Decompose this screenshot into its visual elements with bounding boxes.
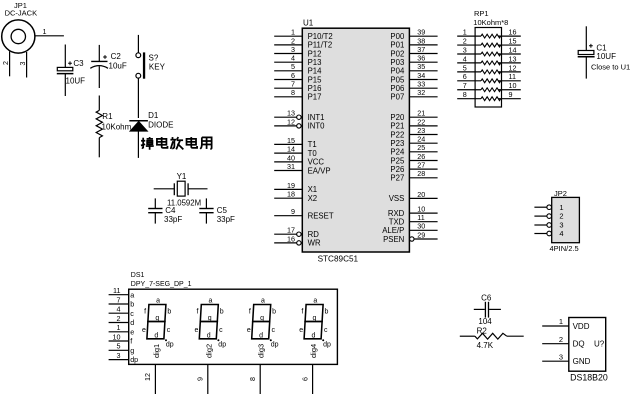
U1 pin 12 (INT0) [274,117,325,130]
svg-text:c: c [219,327,223,334]
svg-text:33pF: 33pF [217,215,235,224]
U1 pin 28 (P27) [390,169,437,182]
DS1 pin 5 (g) [109,342,135,355]
svg-text:e: e [130,327,134,336]
svg-text:C2: C2 [111,52,122,61]
svg-text:dig1: dig1 [152,344,161,358]
svg-text:P04: P04 [390,67,405,76]
svg-text:12: 12 [509,63,517,72]
U1 pin 38 (P01) [390,36,437,49]
DS1 pin 3 (dp) [109,351,139,364]
svg-text:P10/T2: P10/T2 [308,32,333,41]
svg-text:U1: U1 [303,18,314,27]
svg-text:Y1: Y1 [177,172,187,181]
svg-text:12: 12 [287,117,295,126]
svg-text:10Kohm: 10Kohm [102,123,132,132]
svg-text:T1: T1 [308,140,317,149]
svg-text:dig2: dig2 [204,344,213,358]
IC U1 STC89C51 body [302,18,409,263]
svg-text:10: 10 [509,81,517,90]
svg-text:DIODE: DIODE [148,121,173,130]
U1 pin 15 (T1) [274,136,317,149]
svg-text:C3: C3 [73,59,84,68]
svg-text:e: e [247,327,251,334]
svg-text:4: 4 [463,54,467,63]
svg-text:4: 4 [117,305,121,314]
svg-text:KEY: KEY [149,62,166,71]
svg-text:8: 8 [248,377,257,381]
svg-text:20: 20 [417,190,425,199]
svg-text:1: 1 [559,317,563,326]
svg-text:b: b [130,300,134,309]
svg-text:b: b [272,309,276,316]
U1 pin 18 (X2) [274,190,317,203]
svg-text:dp: dp [323,342,331,349]
RP1 resistor 1-16 [457,28,521,39]
svg-text:31: 31 [287,162,295,171]
svg-text:Close to U1: Close to U1 [591,63,630,72]
U1 pin 32 (P07) [390,88,437,101]
svg-text:a: a [261,297,265,304]
svg-text:INT1: INT1 [308,113,325,122]
U1 pin 39 (P00) [390,28,437,41]
svg-text:dp: dp [271,342,279,349]
svg-text:5: 5 [463,63,467,72]
DS1 digit glyph dig2 [194,297,226,358]
svg-text:c: c [167,327,171,334]
svg-text:RESET: RESET [308,212,334,221]
svg-text:2: 2 [463,36,467,45]
DS18B20 pin 1 (VDD) [542,317,590,331]
U1 pin 31 (EA/VP) [274,162,330,175]
svg-text:33pF: 33pF [164,215,182,224]
svg-text:a: a [209,297,213,304]
svg-text:c: c [324,327,328,334]
svg-text:3: 3 [559,352,563,361]
svg-text:15: 15 [509,36,517,45]
svg-text:DQ: DQ [573,340,585,349]
svg-text:a: a [156,297,160,304]
U1 pin 27 (P26) [390,161,437,174]
svg-text:f: f [130,337,132,346]
svg-text:STC89C51: STC89C51 [318,254,359,263]
svg-text:P17: P17 [308,93,322,102]
svg-text:f: f [144,309,146,316]
JP1 pin 2 wire [1,52,10,77]
svg-text:37: 37 [417,45,425,54]
svg-text:39: 39 [417,28,425,37]
U1 pin 24 (P23) [390,135,437,148]
svg-text:30: 30 [417,222,425,231]
capacitor C6 104 [474,293,501,326]
svg-text:19: 19 [287,181,295,190]
U1 pin 14 (T0) [274,145,317,158]
svg-text:5: 5 [291,62,295,71]
U1 pin 10 (RXD) [388,205,438,218]
svg-text:27: 27 [417,161,425,170]
U1 pin 2 (P11/T2) [274,36,332,49]
DS18B20 pin 2 (DQ) [542,335,584,349]
svg-text:C6: C6 [481,293,492,302]
svg-text:16: 16 [287,234,295,243]
svg-text:R1: R1 [102,112,113,121]
DS1 pin 2 (d) [109,314,135,327]
svg-text:WR: WR [308,239,321,248]
svg-text:6: 6 [291,71,295,80]
svg-text:f: f [249,309,251,316]
svg-text:f: f [301,309,303,316]
JP1 pin 1 wire [35,27,64,36]
svg-text:9: 9 [196,377,205,381]
capacitor C4 33pF [148,198,182,223]
svg-text:5: 5 [117,342,121,351]
svg-text:P26: P26 [390,165,404,174]
display DS1 DPY_7-SEG_DP_1 body [129,272,338,365]
svg-text:P20: P20 [390,113,405,122]
svg-text:6: 6 [463,72,467,81]
svg-text:29: 29 [417,230,425,239]
svg-text:4: 4 [559,229,563,238]
RP1 resistor 8-9 [457,90,521,101]
svg-text:g: g [130,346,134,355]
svg-text:ALE/P: ALE/P [382,226,404,235]
svg-text:dig4: dig4 [309,344,318,358]
capacitor C3 10UF [57,45,85,97]
svg-text:P15: P15 [308,75,323,84]
svg-text:e: e [142,327,146,334]
U1 pin 11 (TXD) [389,213,438,226]
svg-text:3: 3 [18,62,27,66]
JP2 pin 1 [534,203,563,212]
svg-text:14: 14 [287,145,295,154]
U1 pin 22 (P21) [390,117,437,130]
svg-text:6: 6 [300,377,309,381]
DS1 bottom pin 12 wire [143,364,155,394]
svg-text:JP2: JP2 [554,189,567,198]
U1 pin 7 (P16) [274,80,321,93]
svg-text:P27: P27 [390,174,404,183]
svg-text:11: 11 [509,72,516,81]
svg-text:1: 1 [117,323,121,332]
U1 pin 5 (P14) [274,62,322,75]
svg-text:18: 18 [287,190,295,199]
svg-text:2: 2 [559,212,563,221]
svg-text:P00: P00 [390,32,405,41]
JP2 pin 2 [534,212,563,221]
svg-text:P02: P02 [390,49,404,58]
RP1 resistor 6-11 [457,72,521,83]
DS1 digit glyph dig4 [299,297,331,358]
svg-text:10: 10 [113,332,121,341]
U1 pin 17 (RD) [274,226,319,239]
svg-text:10uF: 10uF [109,61,127,70]
svg-text:b: b [325,309,329,316]
U1 pin 26 (P25) [390,152,437,165]
svg-text:d: d [130,318,134,327]
svg-text:13: 13 [509,54,517,63]
U1 pin 20 (VSS) [389,190,438,203]
svg-text:1: 1 [43,27,47,36]
JP2 pin 3 [534,221,563,230]
svg-text:4PIN/2.5: 4PIN/2.5 [550,244,579,253]
DS1 pin 1 (e) [109,323,135,336]
RP1 resistor 3-14 [457,45,521,56]
svg-text:10Kohm*8: 10Kohm*8 [473,18,508,27]
DS1 bottom pin 6 wire [300,364,312,394]
svg-text:c: c [130,309,134,318]
U1 pin 30 (ALE/P) [382,222,437,235]
U1 pin 3 (P12) [274,45,321,58]
svg-text:X2: X2 [308,194,318,203]
svg-text:a: a [313,297,317,304]
JP1 pin 3 wire [18,52,27,78]
resistor R1 10Kohm [96,96,131,158]
svg-text:P22: P22 [390,130,404,139]
svg-text:DS1: DS1 [131,272,145,279]
svg-text:S?: S? [149,53,159,62]
U1 pin 33 (P06) [390,80,437,93]
diode D1 [129,111,173,158]
svg-text:32: 32 [417,88,425,97]
DS1 pin 10 (f) [109,332,133,345]
svg-text:DC-JACK: DC-JACK [5,8,38,17]
U1 pin 16 (WR) [274,234,321,247]
svg-text:dp: dp [166,342,174,349]
U1 pin 4 (P13) [274,54,321,67]
RP1 resistor 5-12 [457,63,521,74]
svg-text:P05: P05 [390,75,405,84]
svg-text:3: 3 [117,351,121,360]
U1 pin 36 (P03) [390,54,437,67]
switch S? KEY [136,35,166,118]
U1 pin 35 (P04) [390,62,437,75]
svg-text:C5: C5 [217,206,228,215]
svg-text:13: 13 [287,109,295,118]
svg-text:RD: RD [308,230,320,239]
svg-text:e: e [194,327,198,334]
connector JP2 4PIN body [550,189,580,253]
capacitor C5 33pF [199,198,235,223]
RP1 resistor 2-15 [457,36,521,47]
svg-text:c: c [272,327,276,334]
svg-text:PSEN: PSEN [383,235,404,244]
resistor pack RP1 10Kohm*8 body [473,9,508,107]
svg-text:b: b [167,309,171,316]
U1 pin 13 (INT1) [274,109,324,122]
svg-text:2: 2 [117,314,121,323]
svg-text:14: 14 [509,45,517,54]
svg-text:P14: P14 [308,67,323,76]
DS1 pin 11 (a) [109,286,135,299]
svg-text:11: 11 [113,286,120,295]
svg-text:VDD: VDD [573,322,590,331]
U1 pin 23 (P22) [390,126,437,139]
svg-text:16: 16 [509,28,517,37]
svg-text:35: 35 [417,62,425,71]
note text (power-down discharge use) [141,137,212,150]
svg-text:dig3: dig3 [257,344,266,358]
svg-text:P24: P24 [390,148,405,157]
svg-text:dp: dp [218,342,226,349]
svg-text:2: 2 [1,61,10,65]
svg-text:28: 28 [417,169,425,178]
svg-text:X1: X1 [308,185,318,194]
IC U? DS18B20 body [569,318,608,383]
svg-text:f: f [197,309,199,316]
svg-text:17: 17 [287,226,295,235]
svg-text:T0: T0 [308,149,318,158]
U1 pin 1 (P10/T2) [274,28,333,41]
svg-text:RP1: RP1 [474,9,489,18]
svg-text:P12: P12 [308,49,322,58]
svg-text:1: 1 [291,28,295,37]
U1 pin 34 (P05) [390,71,437,84]
svg-text:C4: C4 [165,206,176,215]
RP1 resistor 4-13 [457,54,521,65]
svg-text:INT0: INT0 [308,122,326,131]
svg-text:DS18B20: DS18B20 [570,373,608,383]
svg-text:3: 3 [463,45,467,54]
RP1 resistor 7-10 [457,81,521,92]
capacitor C2 10uF [90,45,127,88]
U1 pin 40 (VCC) [274,153,324,166]
DS1 digit glyph dig1 [142,297,174,358]
svg-text:b: b [220,309,224,316]
svg-text:D1: D1 [148,111,159,120]
DS1 bottom pin 8 wire [248,364,260,394]
svg-text:7: 7 [117,295,121,304]
svg-text:7: 7 [463,81,467,90]
svg-text:10UF: 10UF [596,52,616,61]
svg-text:12: 12 [143,373,152,381]
svg-text:23: 23 [417,126,425,135]
svg-text:2: 2 [559,335,563,344]
svg-text:8: 8 [291,88,295,97]
svg-text:8: 8 [463,90,467,99]
U1 pin 37 (P02) [390,45,437,58]
svg-text:25: 25 [417,143,425,152]
capacitor C1 10UF [578,26,630,78]
U1 pin 9 (RESET) [274,207,334,220]
svg-text:10UF: 10UF [66,77,86,86]
connector JP1 DC-JACK [2,1,37,53]
JP2 pin 4 [534,229,563,238]
svg-text:9: 9 [509,90,513,99]
U1 pin 25 (P24) [390,143,437,156]
svg-text:a: a [130,290,134,299]
svg-text:21: 21 [417,109,425,118]
crystal Y1 11.0592M [154,172,208,208]
svg-text:GND: GND [573,357,591,366]
U1 pin 21 (P20) [390,109,437,122]
DS18B20 pin 3 (GND) [542,352,590,366]
svg-text:3: 3 [291,45,295,54]
DS1 pin 7 (b) [109,295,135,308]
U1 pin 6 (P15) [274,71,322,84]
U1 pin 19 (X1) [274,181,317,194]
svg-text:104: 104 [478,317,492,326]
svg-text:34: 34 [417,71,425,80]
svg-text:EA/VP: EA/VP [308,166,331,175]
svg-text:P07: P07 [390,93,404,102]
svg-text:e: e [299,327,303,334]
DS1 pin 4 (c) [109,305,135,318]
svg-text:U?: U? [594,340,605,349]
svg-text:15: 15 [287,136,295,145]
svg-text:DPY_7-SEG_DP_1: DPY_7-SEG_DP_1 [131,281,192,288]
DS1 bottom pin 9 wire [196,364,208,394]
DS1 digit glyph dig3 [247,297,279,358]
U1 pin 29 (PSEN) [383,230,438,243]
svg-text:VSS: VSS [389,194,405,203]
svg-text:dp: dp [130,355,138,364]
svg-text:1: 1 [559,203,563,212]
U1 pin 8 (P17) [274,88,321,101]
svg-text:1: 1 [463,28,467,37]
svg-text:4.7K: 4.7K [477,341,494,350]
resistor R2 4.7K [460,326,524,350]
svg-text:9: 9 [291,207,295,216]
